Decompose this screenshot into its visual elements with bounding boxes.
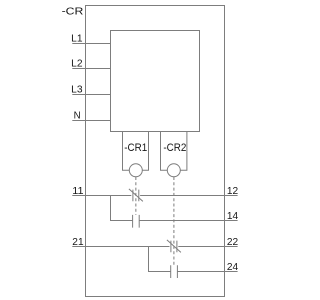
wire row 14 (139, 220, 237, 222)
coil -CR1 circle (129, 164, 142, 177)
NC contact 21-22 slash (167, 240, 181, 253)
relay body box U1 (111, 31, 200, 132)
mechanical link from -CR1 (dashed) (135, 177, 137, 215)
svg-text:11: 11 (72, 186, 84, 197)
svg-text:-CR: -CR (62, 6, 84, 17)
branch wire 22 to 24 (149, 247, 171, 272)
svg-text:N: N (74, 111, 81, 122)
svg-text:-CR1: -CR1 (124, 142, 147, 154)
svg-text:22: 22 (227, 237, 239, 248)
coil -CR2 circle (167, 164, 180, 177)
svg-text:24: 24 (227, 262, 239, 273)
branch wire 11 to 14 (111, 196, 133, 221)
svg-text:L1: L1 (71, 34, 83, 45)
svg-text:14: 14 (227, 211, 239, 222)
wire L1 (72, 43, 110, 45)
wire N (72, 120, 110, 122)
wire row 24 (177, 271, 237, 273)
mechanical link from -CR2 (dashed) (173, 177, 175, 265)
svg-text:L2: L2 (71, 59, 83, 70)
wire row 21-22 (72, 246, 237, 248)
NC contact 11-12 bars (133, 190, 139, 202)
wire row 11-12 (72, 195, 237, 197)
svg-text:12: 12 (227, 186, 239, 197)
wire L3 (72, 94, 110, 96)
NC contact 21-22 bars (171, 241, 177, 253)
NC contact 11-12 slash (129, 189, 143, 202)
NO contact 24 bars (171, 265, 178, 278)
coil -CR1 box (123, 132, 149, 171)
coil -CR2 box (161, 132, 187, 171)
wire L2 (72, 68, 110, 70)
NO contact 14 bars (133, 215, 140, 228)
svg-text:21: 21 (72, 237, 84, 248)
svg-text:L3: L3 (71, 85, 83, 96)
relay -CR enclosure outline (86, 6, 225, 297)
svg-text:-CR2: -CR2 (163, 142, 186, 154)
